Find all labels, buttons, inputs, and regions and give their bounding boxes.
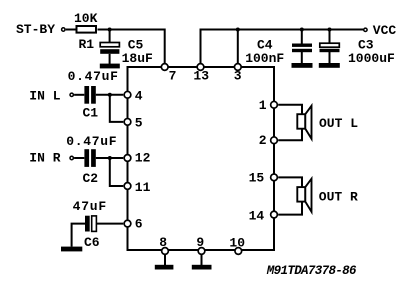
speaker OUT L: [297, 106, 311, 139]
svg-text:15: 15: [249, 171, 265, 186]
svg-text:10K: 10K: [74, 11, 98, 26]
wire C1 to pin 4: [96, 94, 124, 96]
svg-text:C6: C6: [84, 235, 100, 250]
svg-text:5: 5: [135, 116, 143, 131]
pin 10: [229, 236, 245, 255]
ground C3: [319, 63, 340, 68]
svg-text:13: 13: [193, 69, 209, 84]
wire junction to pin 5: [110, 95, 124, 122]
ground pin 8: [155, 265, 174, 270]
junction node C4: [300, 28, 304, 32]
svg-text:3: 3: [234, 68, 242, 83]
pin 9: [196, 235, 204, 254]
svg-text:6: 6: [135, 216, 143, 231]
wire rail to C4: [301, 30, 303, 45]
wire junction to C5: [109, 30, 111, 44]
pin 1: [259, 98, 278, 113]
wire junction to pin 11: [110, 158, 124, 186]
junction node C2 out: [108, 156, 112, 160]
svg-text:10: 10: [229, 236, 245, 251]
wire pin 15 to speaker R: [278, 177, 302, 214]
wire VCC rail to pin 13: [201, 30, 364, 64]
speaker OUT R: [297, 179, 311, 212]
svg-text:12: 12: [135, 151, 151, 166]
wire pin 1 to speaker L: [278, 105, 302, 141]
wire ST-BY to R1: [66, 29, 76, 31]
junction node R1/C5: [108, 28, 112, 32]
svg-text:47uF: 47uF: [73, 199, 107, 214]
wire IN R to C2: [74, 157, 84, 159]
wire R1 to pin 7: [98, 30, 165, 64]
svg-text:R1: R1: [79, 37, 95, 52]
pin 4: [124, 88, 143, 103]
wire rail to pin 3: [237, 30, 239, 64]
terminal VCC: [364, 28, 367, 31]
svg-text:0.47uF: 0.47uF: [66, 134, 117, 149]
capacitor C1: [84, 86, 95, 104]
wire C6 to pin 6: [97, 223, 124, 225]
wire C5 to ground: [109, 54, 111, 64]
wire C3 to ground: [329, 52, 331, 64]
wire ground to C6: [72, 224, 85, 247]
pin 5: [124, 116, 143, 131]
ground C5: [100, 64, 120, 69]
pin 8: [159, 235, 168, 254]
svg-text:7: 7: [169, 68, 177, 83]
svg-text:0.47uF: 0.47uF: [68, 69, 119, 84]
svg-text:4: 4: [135, 88, 143, 103]
capacitor C2: [84, 149, 95, 167]
junction node C1 out: [108, 93, 112, 97]
IC U1 body: [128, 67, 275, 250]
capacitor C3: [320, 43, 340, 52]
svg-text:8: 8: [159, 235, 167, 250]
ground C4: [292, 63, 313, 68]
pin 12: [124, 151, 150, 166]
svg-text:C1: C1: [83, 106, 99, 121]
resistor R1: [77, 26, 97, 33]
pin 15: [249, 171, 278, 186]
svg-text:9: 9: [196, 235, 204, 250]
capacitor C6: [85, 216, 96, 232]
ground C6: [61, 247, 82, 252]
pin 6: [124, 216, 143, 231]
svg-text:ST-BY: ST-BY: [16, 22, 55, 37]
pin 2: [259, 133, 278, 148]
svg-text:11: 11: [135, 180, 151, 195]
svg-text:100nF: 100nF: [245, 51, 284, 66]
svg-text:14: 14: [249, 208, 265, 223]
svg-text:IN L: IN L: [29, 89, 60, 104]
terminal ST-BY: [62, 28, 65, 31]
svg-text:VCC: VCC: [373, 23, 397, 38]
svg-text:IN R: IN R: [29, 151, 60, 166]
svg-text:OUT R: OUT R: [319, 190, 358, 205]
wire pin 9 to ground: [201, 255, 203, 265]
junction node C3: [328, 28, 332, 32]
svg-text:OUT L: OUT L: [319, 116, 358, 131]
terminal IN R: [70, 156, 73, 159]
svg-text:1000uF: 1000uF: [348, 51, 395, 66]
ground pin 9: [192, 265, 212, 270]
svg-text:2: 2: [259, 133, 267, 148]
junction node pin 3 branch: [236, 28, 240, 32]
wire pin 8 to ground: [164, 255, 166, 265]
svg-text:C2: C2: [83, 171, 99, 186]
wire rail to C3: [329, 30, 331, 45]
wire C4 to ground: [301, 52, 303, 64]
capacitor C5: [100, 43, 119, 54]
svg-text:M91TDA7378-86: M91TDA7378-86: [266, 264, 357, 278]
wire IN L to C1: [74, 94, 84, 96]
pin 14: [249, 208, 278, 223]
pin 11: [124, 180, 150, 195]
capacitor C4: [292, 44, 312, 53]
pin 7: [161, 64, 176, 84]
pin 13: [193, 64, 209, 84]
svg-text:1: 1: [259, 98, 267, 113]
terminal IN L: [70, 93, 73, 96]
wire C2 to pin 12: [96, 157, 124, 159]
pin 3: [234, 64, 242, 84]
svg-text:18uF: 18uF: [122, 51, 153, 66]
